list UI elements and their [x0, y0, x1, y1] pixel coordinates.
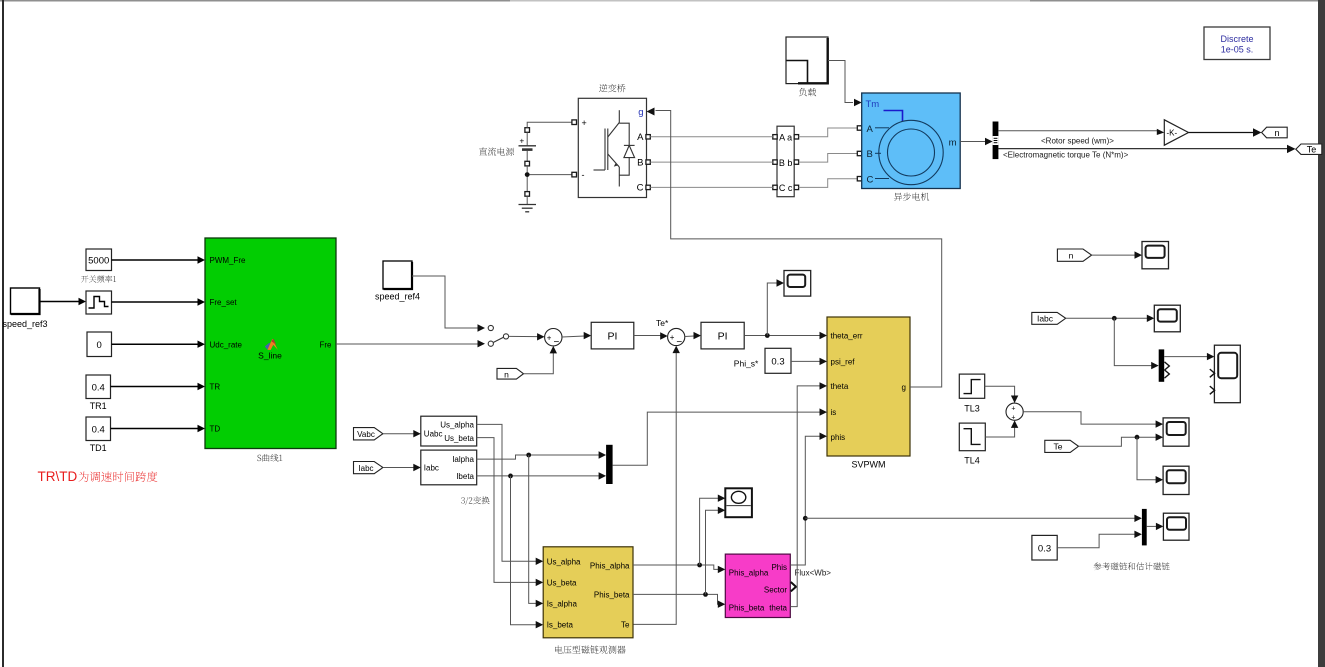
svg-text:0.3: 0.3 [771, 356, 784, 367]
wire mux34 to SVPWM is [613, 408, 827, 465]
motor port squares [857, 126, 861, 181]
wire motor m to bus selector [960, 138, 992, 146]
big scope D (phase current) [1210, 345, 1241, 403]
svg-text:Us_alpha: Us_alpha [547, 558, 581, 567]
mux flux compare [1142, 509, 1147, 546]
wire 0.3 to SVPWM psi_ref [791, 358, 827, 365]
junction Te monitoring [1135, 435, 1140, 440]
sum3 (load torque) [1006, 403, 1023, 422]
sum2 (torque error) [668, 328, 685, 347]
sum1 (speed error) [545, 329, 562, 349]
label zhiliudianyuan (DC source) [479, 147, 514, 155]
wire Ibeta branch down to observer Is_beta [511, 476, 544, 629]
svg-text:+: + [520, 137, 525, 146]
svg-text:Ibeta: Ibeta [456, 472, 474, 481]
wire PI1 to sum2 [634, 332, 668, 339]
svg-text:TD: TD [210, 425, 221, 434]
svg-text:n: n [1069, 250, 1074, 260]
svg-text:TR1: TR1 [90, 401, 107, 411]
wire 0 to S-block Udc_rate [112, 341, 206, 348]
svg-text:<Electromagnetic torque Te (N*: <Electromagnetic torque Te (N*m)> [1003, 151, 1129, 160]
svg-text:theta: theta [769, 604, 787, 613]
unconnected Sector output chevron [791, 582, 796, 591]
label voltage flux observer [555, 645, 626, 653]
wire Phis output up to SVPWM phis [790, 433, 827, 566]
subsystem S_line (green) [205, 238, 336, 449]
from tag Te [1045, 440, 1079, 452]
svg-text:Flux<Wb>: Flux<Wb> [795, 569, 832, 578]
IGBT and diode icon inside inverter [594, 110, 635, 186]
svg-text:C c: C c [779, 183, 793, 193]
svg-text:Vabc: Vabc [357, 430, 375, 439]
label yibudianji (async machine) [894, 193, 929, 201]
svg-text:Is_alpha: Is_alpha [547, 600, 578, 609]
svg-text:Iabc: Iabc [424, 464, 439, 473]
inverter output port squares A B C [646, 135, 650, 190]
wire TD1 to S-block TD [111, 425, 206, 432]
svg-text:Phis_alpha: Phis_alpha [590, 561, 630, 570]
g input arrow on inverter [647, 108, 655, 116]
wire sum1 to PI1 [562, 332, 591, 339]
constant 0.3 (flux ref compare) [1032, 535, 1057, 560]
svg-text:+: + [582, 118, 587, 128]
wire PI2 to SVPWM theta_err [744, 332, 827, 339]
junction Ibeta branch [508, 474, 513, 479]
svg-text:0.3: 0.3 [1038, 543, 1051, 554]
from tag Vabc [354, 428, 383, 440]
label kaiguanpinlv1 [81, 275, 116, 283]
wire Iabc to Iabc transform [383, 464, 421, 471]
wire inverter A to connector [650, 136, 773, 138]
wire Ibeta to mux34 [477, 472, 606, 479]
svg-text:TL3: TL3 [964, 404, 980, 414]
wire Us_alpha down to observer [477, 424, 544, 565]
goto tag n [1262, 127, 1288, 138]
scope A (theta_err) [784, 271, 811, 297]
subsystem voltage flux observer (yellow) [543, 547, 633, 638]
wire Phis_beta branch up to XY graph [706, 507, 726, 595]
wire n tag to scope B [1092, 251, 1142, 258]
wire connector Bb to motor B [799, 154, 858, 163]
svg-text:C: C [637, 183, 644, 194]
bus selector [993, 122, 999, 160]
subsystem speed_ref4 [375, 261, 420, 302]
wire rotor speed to gain [998, 129, 1164, 135]
svg-text:SVPWM: SVPWM [851, 460, 885, 470]
load step source [786, 37, 828, 84]
constant 0.3 (flux ref) [765, 348, 791, 373]
junction Phis_beta [703, 592, 708, 597]
wire load to motor Tm [828, 61, 862, 107]
from tag Iabc [354, 462, 383, 474]
Iabc 3/2 transform block [421, 450, 477, 485]
svg-text:A: A [867, 124, 874, 135]
wire TL4 to sum3 bottom [985, 420, 1018, 437]
junction Phis_alpha [697, 563, 702, 568]
svg-text:0: 0 [97, 340, 102, 351]
scope F (Te) [1163, 466, 1189, 494]
svg-text:Phis_beta: Phis_beta [594, 591, 630, 600]
svg-text:-: - [582, 170, 585, 180]
svg-text:TD1: TD1 [90, 443, 107, 453]
subsystem SVPWM (yellow) [827, 317, 910, 470]
wire SVPWM g feedback to inverter g [656, 111, 942, 388]
svg-text:PWM_Fre: PWM_Fre [210, 256, 247, 265]
constant TD1 value 0.4 [86, 417, 111, 453]
PI controller 2 (torque) [701, 322, 744, 349]
svg-text:Phi_s*: Phi_s* [734, 359, 759, 369]
svg-text:theta: theta [831, 382, 849, 391]
svg-text:+: + [547, 333, 552, 342]
manual switch [488, 325, 508, 346]
constant TR1 value 0.4 [86, 375, 111, 411]
scope C (Iabc) [1154, 305, 1180, 332]
svg-text:Us_beta: Us_beta [444, 434, 474, 443]
label fuzai (load) [799, 88, 816, 96]
demux unconnected output chevrons [1165, 362, 1170, 370]
svg-text:Phis: Phis [771, 563, 787, 572]
svg-text:0.4: 0.4 [92, 425, 105, 436]
wire Ialpha branch down to observer Is_alpha [529, 455, 544, 607]
svg-text:TR\TD: TR\TD [38, 469, 78, 484]
step TL4 [959, 423, 985, 465]
junction Iabc [1112, 316, 1117, 321]
svg-text:Fre_set: Fre_set [210, 298, 238, 307]
wire connector Cc to motor C [799, 179, 858, 188]
svg-text:+: + [1011, 415, 1015, 422]
wire battery plus to inverter [527, 120, 576, 128]
svg-text:1e-05 s.: 1e-05 s. [1221, 45, 1254, 55]
junction Ialpha branch [526, 453, 531, 458]
XY graph scope [725, 488, 752, 517]
gain -K- [1164, 120, 1188, 145]
from tag n (to scope) [1057, 249, 1091, 261]
window left border [2, 0, 4, 667]
pulse generator block [86, 291, 112, 314]
svg-text:B b: B b [779, 158, 793, 168]
wire theta output up to SVPWM theta [790, 382, 827, 606]
svg-text:phis: phis [831, 433, 846, 442]
svg-text:Iabc: Iabc [1037, 314, 1054, 324]
Uabc 3/2 transform block [421, 416, 477, 446]
svg-text:Te*: Te* [656, 318, 669, 328]
svg-text:Phis_alpha: Phis_alpha [729, 569, 769, 578]
constant 0 [87, 332, 112, 357]
mux34 (current vector) [606, 445, 613, 484]
wire sum2 to PI2 [685, 332, 701, 339]
svg-text:PI: PI [718, 331, 728, 343]
svg-text:Udc_rate: Udc_rate [210, 340, 243, 349]
wire TL3 to sum3 top [985, 386, 1019, 403]
wire speed_ref3 to pulse generator [40, 298, 87, 305]
subsystem flux sector (magenta) [725, 554, 790, 617]
wire 0.3 to mux flux [1057, 531, 1142, 548]
ground symbol [519, 205, 537, 212]
svg-text:psi_ref: psi_ref [831, 357, 856, 366]
label nibianqiao (inverter bridge) [599, 84, 625, 92]
svg-text:−: − [554, 337, 560, 348]
wire mux flux to scope G [1147, 523, 1164, 530]
svg-text:Discrete: Discrete [1220, 34, 1253, 44]
svg-text:+: + [1011, 406, 1015, 413]
wire Te branch down to scope F [1137, 437, 1163, 483]
svg-text:speed_ref3: speed_ref3 [2, 319, 47, 329]
svg-text:Te: Te [1054, 442, 1063, 452]
svg-text:Fre: Fre [320, 340, 333, 349]
svg-text:n: n [1274, 128, 1279, 138]
wire Iabc tag to scope C [1066, 315, 1155, 322]
svg-text:m: m [949, 137, 957, 148]
svg-text:C: C [867, 175, 874, 186]
wire switch to sum1 [509, 333, 545, 340]
svg-text:theta_err: theta_err [831, 331, 863, 340]
junction on theta_err wire [765, 333, 770, 338]
wire pulse generator to S-block Fre_set [112, 298, 206, 305]
svg-text:TL4: TL4 [964, 456, 980, 466]
svg-text:S_line: S_line [258, 351, 282, 361]
wire Phis_beta to sector block [633, 594, 725, 608]
wire junction up to scope A [767, 279, 784, 335]
asynchronous machine block (blue) [862, 93, 961, 189]
label reference and estimated flux [1094, 562, 1170, 570]
demux (currents) [1159, 349, 1165, 381]
svg-text:−: − [676, 337, 682, 348]
wire sum3 to scope E [1023, 412, 1163, 428]
goto tag Te [1296, 144, 1322, 155]
svg-text:Is_beta: Is_beta [547, 621, 574, 630]
svg-text:g: g [902, 383, 906, 392]
MATLAB fcn logo inside S_line [258, 339, 282, 361]
window top border [0, 0, 1325, 2]
subsystem speed_ref3 [2, 288, 47, 329]
inverter bridge subsystem [578, 98, 646, 197]
svg-text:<Rotor speed (wm)>: <Rotor speed (wm)> [1041, 137, 1114, 146]
three-phase connector block Aa Bb Cc [773, 126, 799, 197]
scope G (flux compare) [1163, 513, 1189, 540]
svg-text:5000: 5000 [88, 256, 109, 267]
wire battery mid junction to inverter minus [530, 172, 577, 177]
svg-text:Iabc: Iabc [358, 464, 373, 473]
wire gain to goto n [1189, 128, 1262, 136]
wire Phis_alpha branch up to XY graph [700, 495, 726, 566]
window right scrollbar [1318, 0, 1325, 667]
svg-text:Phis_beta: Phis_beta [729, 604, 765, 613]
svg-text:Te: Te [621, 621, 630, 630]
svg-text:B: B [637, 158, 643, 169]
wire Phis_alpha to sector block [633, 565, 725, 573]
svg-text:-K-: -K- [1167, 129, 1178, 138]
svg-text:Ialpha: Ialpha [452, 455, 474, 464]
constant 5000 (switching freq) [86, 249, 112, 271]
from tag n (speed feedback) [497, 368, 524, 379]
svg-text:A: A [637, 132, 644, 143]
scope B (n) [1142, 242, 1169, 269]
wire 5000 to S-block PWM_Fre [112, 256, 206, 263]
svg-text:Us_beta: Us_beta [547, 579, 577, 588]
step TL3 [959, 374, 984, 413]
wire demux out1 to big scope [1164, 353, 1214, 360]
svg-text:Us_alpha: Us_alpha [440, 420, 474, 429]
svg-text:0.4: 0.4 [92, 383, 105, 394]
svg-text:speed_ref4: speed_ref4 [375, 292, 420, 302]
svg-text:+: + [670, 333, 675, 342]
PI controller 1 (speed) [591, 322, 634, 349]
discrete sample time block [1204, 27, 1270, 60]
wire Us_beta down to observer [477, 438, 544, 586]
wire electromagnetic torque to Te goto [998, 145, 1295, 153]
wire inverter C to connector [650, 186, 773, 188]
svg-text:g: g [638, 107, 643, 118]
wire speed_ref4 to manual switch top [412, 276, 485, 332]
svg-text:A a: A a [779, 133, 792, 143]
wire observer Te up to sum2 bottom [633, 346, 680, 625]
wire connector Aa to motor A [799, 128, 858, 137]
svg-text:is: is [831, 408, 837, 417]
wire S_line Fre output to manual switch bottom [336, 340, 485, 347]
svg-text:Sector: Sector [764, 586, 787, 595]
wire Iabc branch down to demux [1114, 318, 1158, 369]
svg-text:PI: PI [608, 331, 618, 343]
svg-text:n: n [504, 369, 509, 379]
svg-text:Uabc: Uabc [424, 430, 443, 439]
wire Phis branch to mux flux compare [805, 515, 1142, 522]
wire TR1 to S-block TR [111, 383, 206, 390]
svg-text:TR: TR [210, 383, 221, 392]
junction Phis to flux compare [803, 516, 808, 521]
wire Ialpha to mux34 [477, 451, 606, 459]
svg-text:Tm: Tm [866, 99, 880, 110]
DC source battery [519, 128, 537, 204]
wire inverter B to connector [650, 161, 773, 163]
from tag Iabc (to scope) [1032, 312, 1066, 324]
svg-text:Te: Te [1307, 145, 1317, 155]
wire Te tag to scope E input2 [1079, 434, 1164, 447]
label S-curve1 [257, 454, 282, 462]
label 3/2 transform [461, 496, 489, 505]
wire Vabc to Uabc transform [383, 430, 421, 437]
svg-text:B: B [867, 149, 873, 160]
scope E (torque compare) [1163, 418, 1189, 446]
wire n tag to sum1 bottom [524, 346, 558, 374]
